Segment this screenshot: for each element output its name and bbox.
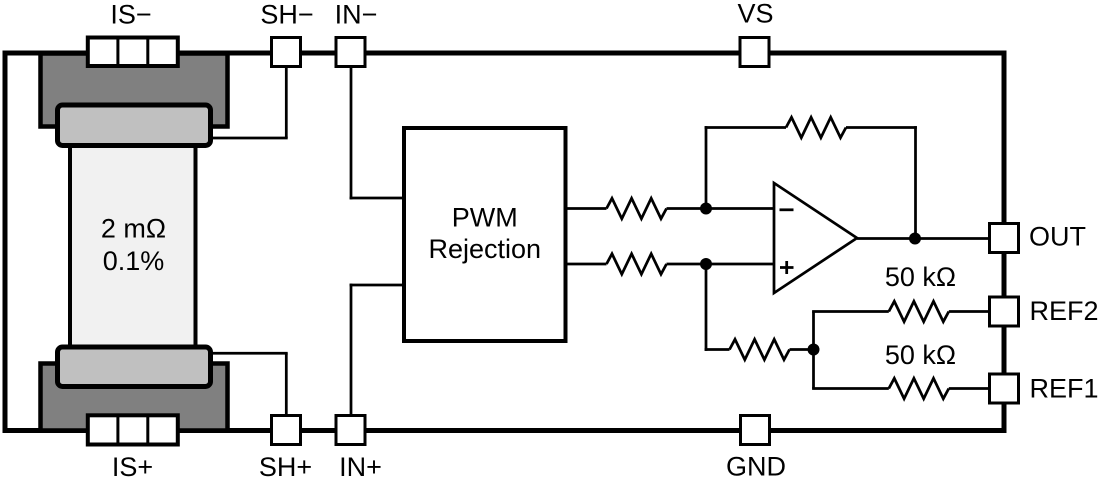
pin OUT (990, 224, 1019, 253)
wire feedback top right (846, 126, 917, 129)
op-amp minus sign (780, 208, 794, 211)
pin IN- (336, 38, 365, 67)
pin GND (741, 416, 770, 445)
resistor R6 50k REF1 (889, 378, 949, 398)
wire IN+ horizontal to PWM block (350, 284, 404, 287)
wire to REF2 resistor (812, 310, 889, 313)
wire divider vertical (812, 312, 815, 389)
svg-text:IN−: IN− (335, 0, 378, 30)
resistor R1 (upper input) (607, 198, 667, 218)
resistor R5 50k REF2 (889, 301, 949, 321)
svg-text:SH−: SH− (260, 0, 313, 30)
node plus input junction (700, 258, 712, 270)
wire SH- vertical (285, 68, 288, 138)
wire R4 to divider node (790, 348, 814, 351)
wire op-amp output (857, 237, 988, 240)
pin IS- (3 squares) (88, 38, 178, 67)
svg-text:IS−: IS− (110, 0, 151, 30)
shunt resistive element R_shunt (70, 115, 196, 370)
op-amp U2 (774, 183, 857, 293)
svg-text:PWM: PWM (452, 203, 518, 233)
PWM Rejection block U1 (404, 128, 566, 341)
wire IN- vertical (350, 68, 353, 199)
pin SH+ (272, 416, 301, 445)
wire PWM upper output (566, 207, 607, 210)
svg-text:50 kΩ: 50 kΩ (885, 340, 956, 370)
svg-text:0.1%: 0.1% (103, 246, 165, 276)
wire PWM lower output (566, 263, 607, 266)
svg-text:50 kΩ: 50 kΩ (885, 262, 956, 292)
pin REF1 (990, 374, 1019, 403)
wire plus node horizontal (705, 348, 730, 351)
wire feedback top left (705, 126, 786, 129)
svg-text:IN+: IN+ (339, 452, 382, 480)
resistor R3 feedback (786, 117, 846, 137)
svg-text:GND: GND (726, 452, 786, 480)
resistor R2 (lower input) (607, 254, 667, 274)
wire feedback right vertical (914, 126, 917, 238)
svg-text:IS+: IS+ (112, 452, 153, 480)
shunt top pad (58, 105, 211, 146)
wire R5 to REF2 pin (949, 310, 988, 313)
node minus input junction (700, 203, 712, 215)
svg-text:REF1: REF1 (1030, 374, 1099, 404)
node divider junction (808, 344, 820, 356)
svg-text:2 mΩ: 2 mΩ (101, 214, 166, 244)
node output junction (909, 233, 921, 245)
wire SH+ horizontal (211, 352, 288, 355)
svg-text:SH+: SH+ (259, 452, 312, 480)
resistor R4 (reference divider input) (730, 339, 790, 359)
svg-text:OUT: OUT (1029, 222, 1086, 252)
wire SH+ vertical (285, 353, 288, 414)
wire plus node vertical down (705, 264, 708, 351)
wire R1 to op-amp minus input (667, 207, 775, 210)
wire IN- horizontal to PWM block (350, 197, 404, 200)
wire to REF1 resistor (812, 387, 889, 390)
pin VS (740, 38, 769, 67)
device outline (5, 53, 1004, 431)
wire SH- horizontal (211, 137, 288, 140)
op-amp plus sign (780, 266, 794, 269)
shunt top terminal block (41, 54, 228, 127)
pin IN+ (336, 416, 365, 445)
svg-text:Rejection: Rejection (428, 234, 541, 264)
shunt bottom terminal block (41, 364, 228, 431)
pin IS+ (3 squares) (88, 415, 178, 444)
pin REF2 (990, 297, 1019, 326)
wire R2 to op-amp plus input (667, 263, 775, 266)
svg-text:REF2: REF2 (1030, 296, 1099, 326)
wire IN+ vertical (350, 284, 353, 414)
wire R6 to REF1 pin (949, 387, 988, 390)
svg-text:VS: VS (737, 0, 773, 29)
shunt bottom pad (58, 347, 211, 387)
pin SH- (272, 38, 301, 67)
wire feedback left vertical (705, 126, 708, 208)
